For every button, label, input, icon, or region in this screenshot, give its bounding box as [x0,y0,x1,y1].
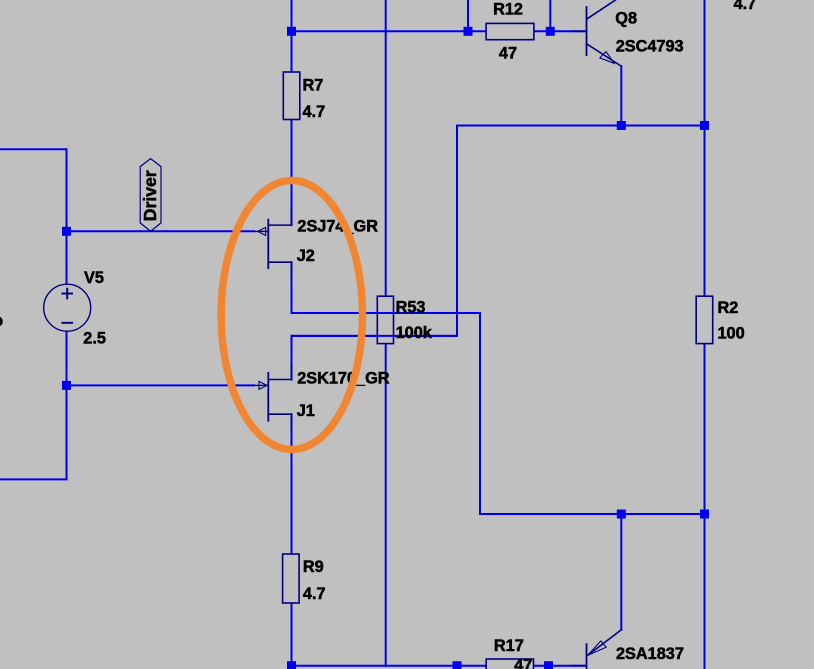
node junction Q8 emitter rail [617,121,626,130]
wire horizontal main top rail [292,30,587,32]
wire Q8 emitter down [620,66,622,125]
resistor R53 [377,296,393,343]
svg-text:J1: J1 [297,402,315,420]
svg-text:2SC4793: 2SC4793 [616,37,684,55]
node junction driver gate J2 [62,227,71,236]
wire crossing R53 upper [292,312,481,314]
node junction R7 top [287,27,296,36]
svg-text:100k: 100k [396,324,433,342]
wire J2 source to mid node right [292,313,705,514]
wire crossing R53 lower [292,335,458,337]
svg-text:47: 47 [499,44,517,62]
transistor Q9 2SA1837 [572,630,621,669]
svg-text:Driver: Driver [140,170,160,221]
svg-text:R53: R53 [396,299,426,317]
svg-text:R9: R9 [303,558,324,576]
svg-text:R12: R12 [493,1,523,19]
voltage source V5 [44,284,91,331]
wire J1 source down to R9 [291,414,293,554]
transistor Q8 2SC4793 [572,0,621,66]
wire gate J2 from node [67,230,255,232]
svg-text:4.7: 4.7 [303,103,326,121]
svg-text:R2: R2 [718,299,739,317]
svg-text:Q8: Q8 [615,10,637,28]
node junction mid rail right [700,510,709,519]
wire right bus R2 to bottom [704,344,706,669]
wire gate J1 from node [67,384,255,386]
resistor R9 [283,554,300,603]
wire right bus top [704,0,706,296]
resistor R12 [486,23,534,39]
svg-text:47: 47 [514,657,532,669]
node junction mid rail at Q9 emitter [617,510,626,519]
wire bottom rail [292,665,587,667]
wire V5 top [66,231,68,284]
node junction R17 right [544,661,553,669]
wire Q9 emitter up [620,514,622,630]
resistor R2 [696,296,713,343]
net flag Driver [140,159,161,232]
wire top vertical into R7 node [291,0,293,31]
node junction V5 minus [62,381,71,390]
node junction cascode rail right [700,121,709,130]
node junction R12 left [464,27,473,36]
svg-text:2SK170_GR: 2SK170_GR [297,370,390,388]
wire R9 to bottom rail [291,603,293,666]
node junction bottom rail mid [453,661,462,669]
svg-text:R17: R17 [494,637,524,655]
JFET J1 2SK170 [254,364,292,431]
svg-text:o: o [0,312,3,330]
annotation orange ellipse [221,181,362,450]
svg-text:V5: V5 [84,269,104,287]
wire R7 to J2 drain [291,31,293,225]
wire J2 source down [291,262,293,313]
wire vertical top feed at x466 [467,0,469,31]
wire J1 drain up [291,336,293,380]
svg-text:4.7: 4.7 [303,585,326,603]
svg-text:R7: R7 [303,77,324,95]
node junction R12 right [546,27,555,36]
wire left return bottom [0,385,67,479]
svg-text:2.5: 2.5 [83,330,106,348]
resistor R7 [283,72,300,120]
wire long vertical bus x385.7 [385,0,387,666]
wire V5 bottom to node [66,331,68,385]
svg-text:2SA1837: 2SA1837 [616,645,684,663]
wire J1 drain to cascode riser [292,126,705,336]
node junction bottom rail left [287,661,296,669]
resistor R17 [486,659,533,669]
svg-text:J2: J2 [297,247,315,265]
svg-text:100: 100 [718,325,745,343]
wire vertical top feed at x550 [549,0,551,31]
wire left input top [0,149,67,231]
svg-text:4.7: 4.7 [734,0,757,13]
JFET J2 2SJ74 [254,209,292,278]
